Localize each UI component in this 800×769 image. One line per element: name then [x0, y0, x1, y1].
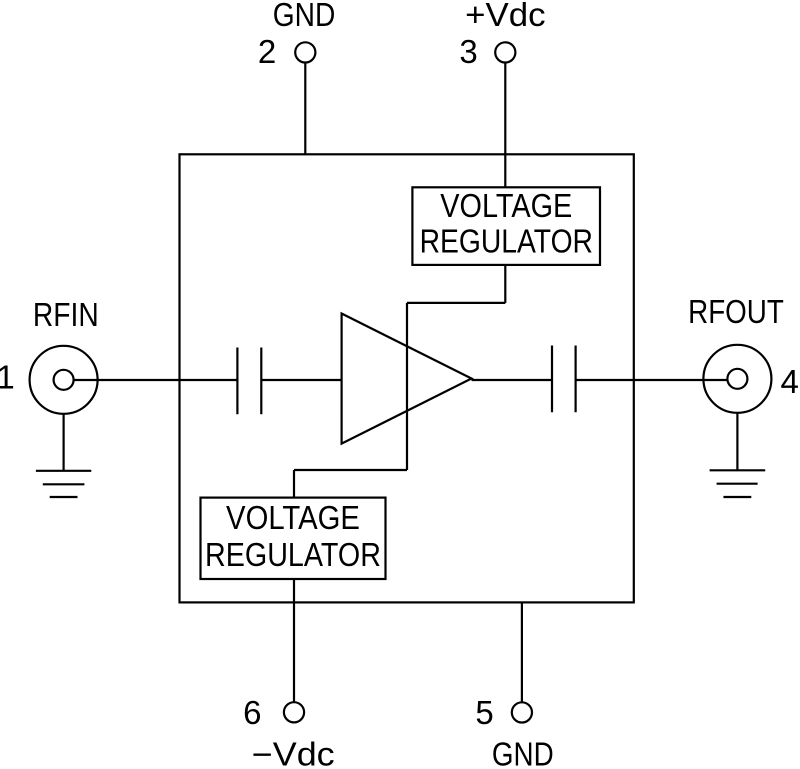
upper voltage regulator block — [412, 187, 600, 265]
RFIN coaxial connector J1 center pin — [54, 370, 74, 390]
wire module box to pin 5 — [521, 602, 523, 702]
svg-text:+Vdc: +Vdc — [465, 0, 545, 33]
wire horizontal to lower regulator — [294, 469, 407, 471]
amplifier A1 — [342, 314, 472, 444]
svg-text:REGULATOR: REGULATOR — [205, 536, 381, 573]
svg-text:REGULATOR: REGULATOR — [420, 223, 593, 260]
wire pin 2 to module box — [304, 62, 306, 154]
RFIN ground stem — [62, 414, 64, 471]
svg-text:GND: GND — [492, 735, 554, 769]
RFIN ground symbol — [36, 471, 91, 497]
wire lower regulator input vertical — [293, 470, 295, 498]
svg-text:2: 2 — [258, 33, 276, 70]
svg-text:RFIN: RFIN — [33, 296, 99, 333]
svg-text:6: 6 — [243, 694, 261, 731]
pin 5 terminal — [512, 702, 532, 722]
pin 6 terminal — [284, 702, 304, 722]
wire horizontal to amplifier bias line — [407, 302, 505, 304]
svg-text:GND: GND — [273, 0, 336, 33]
wire capacitor C1 to amplifier — [261, 379, 341, 381]
svg-text:4: 4 — [781, 363, 799, 400]
wire pin 3 to upper voltage regulator — [504, 62, 506, 187]
wire upper regulator output vertical — [504, 265, 506, 303]
RFOUT ground stem — [736, 413, 738, 471]
pin 3 terminal — [495, 42, 515, 62]
lower voltage regulator block — [201, 498, 386, 579]
wire amplifier to capacitor C2 — [472, 379, 553, 381]
svg-text:5: 5 — [475, 694, 493, 731]
svg-text:3: 3 — [459, 33, 477, 70]
svg-text:VOLTAGE: VOLTAGE — [226, 499, 360, 536]
capacitor C2 (DC block) — [552, 346, 576, 413]
svg-text:−Vdc: −Vdc — [252, 735, 335, 769]
RFOUT coaxial connector J2 outer — [703, 345, 771, 413]
module body box — [180, 154, 634, 602]
svg-text:1: 1 — [0, 359, 15, 396]
pin 2 terminal — [295, 42, 315, 62]
RFOUT ground symbol — [710, 470, 766, 497]
wire capacitor C2 to RFOUT — [576, 379, 728, 381]
svg-text:VOLTAGE: VOLTAGE — [440, 187, 572, 224]
capacitor C1 (DC block) — [237, 348, 261, 415]
svg-text:RFOUT: RFOUT — [688, 293, 784, 330]
wire lower regulator to pin 6 — [293, 579, 295, 703]
RFIN coaxial connector J1 outer — [30, 346, 98, 414]
wire RFIN to capacitor C1 — [74, 379, 238, 381]
wire bias vertical through amplifier — [406, 303, 408, 470]
RFOUT coaxial connector J2 center pin — [727, 369, 747, 389]
